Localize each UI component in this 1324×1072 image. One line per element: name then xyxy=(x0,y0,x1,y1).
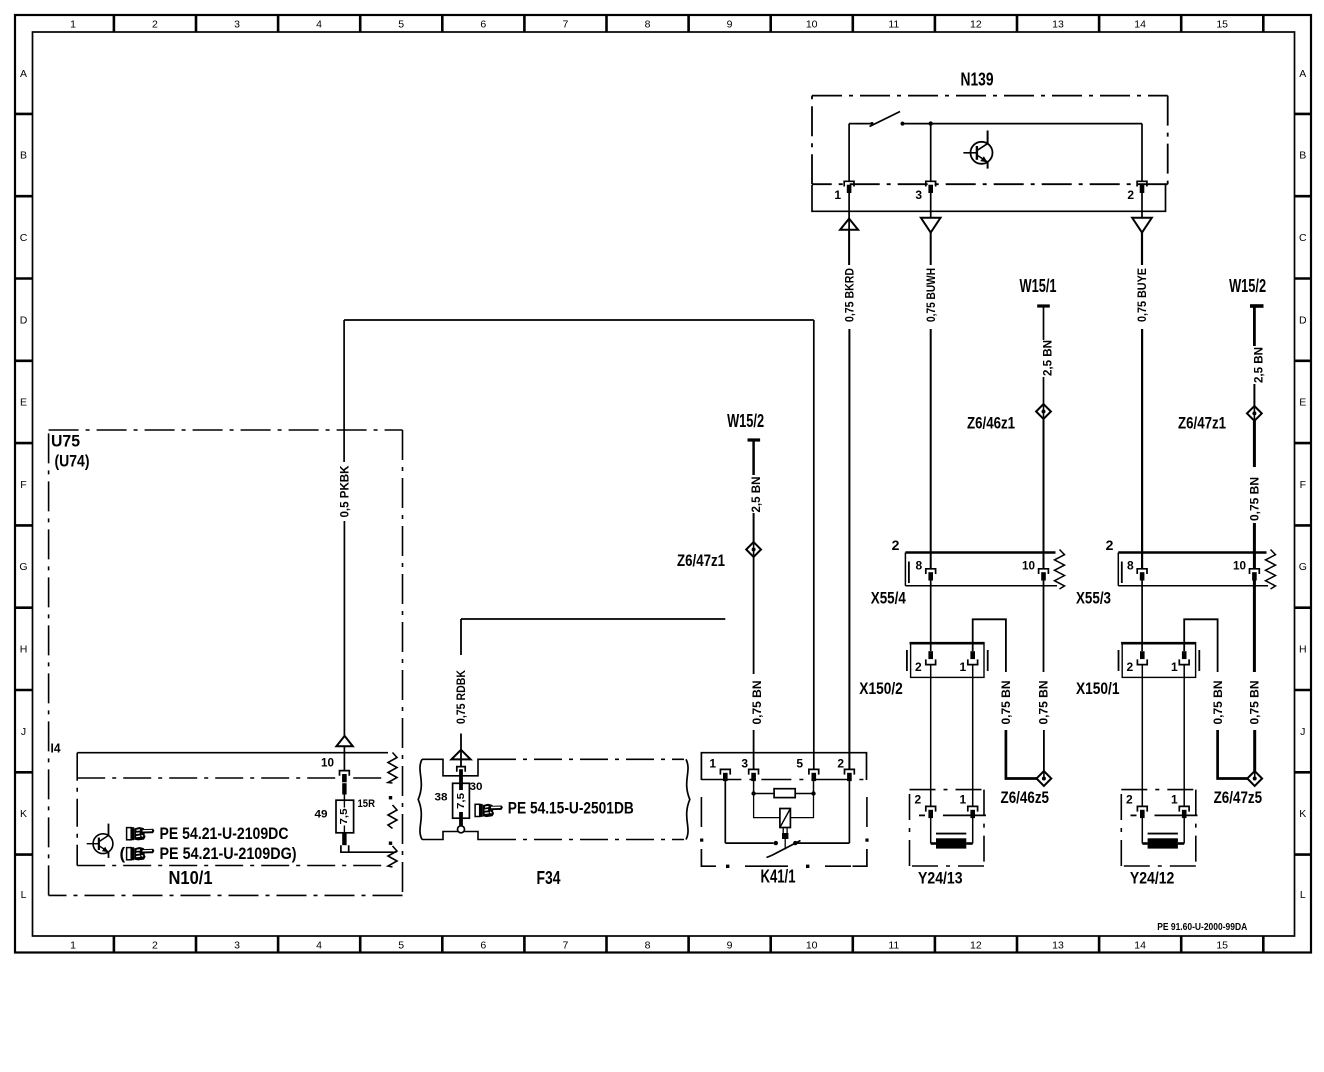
svg-text:W15/1: W15/1 xyxy=(1020,276,1057,296)
svg-text:PE 54.15-U-2501DB: PE 54.15-U-2501DB xyxy=(508,799,634,818)
svg-text:2: 2 xyxy=(1127,660,1134,674)
Y24/13 pin wires to coil xyxy=(930,816,932,843)
svg-text:1: 1 xyxy=(70,940,76,952)
K41/1 actuator link xyxy=(782,828,784,834)
K41/1 wire pin3 to resistor node xyxy=(753,781,755,794)
svg-text:4: 4 xyxy=(316,19,322,31)
terminal W15/1 bar xyxy=(1037,304,1050,307)
svg-text:1: 1 xyxy=(960,793,967,807)
svg-text:PE 91.60-U-2000-99DA: PE 91.60-U-2000-99DA xyxy=(1157,922,1247,933)
connector triangle at F34 xyxy=(451,750,470,760)
svg-text:13: 13 xyxy=(1052,19,1064,31)
svg-text:0,5 PKBK: 0,5 PKBK xyxy=(337,465,351,517)
svg-text:5: 5 xyxy=(398,940,404,952)
N10/1 fuse stub top xyxy=(342,783,346,794)
svg-text:E: E xyxy=(20,397,27,409)
svg-text:X150/1: X150/1 xyxy=(1076,679,1120,698)
K41/1 pin 2 xyxy=(845,769,855,774)
N10/1 pin-row dash-dot line xyxy=(77,777,388,779)
Y24/12 pin 2 xyxy=(1137,806,1147,811)
svg-text:12: 12 xyxy=(970,19,982,31)
terminal W15/2 bar (right) xyxy=(1250,304,1264,308)
K41/1 bottom dash-dot edge xyxy=(726,865,729,868)
wire Z6/46z1 -> X55/4 pin10 xyxy=(1043,419,1045,569)
relay K41/1 top box xyxy=(701,753,866,780)
svg-text:1: 1 xyxy=(1171,793,1178,807)
X55/3 inner bracket xyxy=(1121,562,1123,584)
wire X55/4 pin10 -> label break xyxy=(1043,580,1045,672)
svg-text:2: 2 xyxy=(1106,537,1114,553)
X55/4 pin 10 xyxy=(1039,569,1049,574)
svg-text:U75: U75 xyxy=(51,432,80,451)
svg-text:Y24/12: Y24/12 xyxy=(1130,868,1175,887)
svg-text:8: 8 xyxy=(645,940,651,952)
svg-text:D: D xyxy=(20,314,28,326)
svg-text:1: 1 xyxy=(834,188,841,202)
svg-text:15: 15 xyxy=(1216,940,1228,952)
svg-text:L: L xyxy=(1300,889,1306,901)
Y24/12 solenoid coil xyxy=(1148,833,1178,835)
valve Y24/13 dashed box xyxy=(910,789,985,791)
wire 0,5 PKBK upper xyxy=(343,320,345,462)
svg-text:Z6/47z1: Z6/47z1 xyxy=(677,551,725,570)
svg-text:PE 54.21-U-2109DG): PE 54.21-U-2109DG) xyxy=(160,844,297,863)
svg-text:F: F xyxy=(20,479,26,491)
svg-text:X55/4: X55/4 xyxy=(871,589,906,608)
wire X55/3 pin8 -> X150/1 pin2 xyxy=(1141,580,1143,651)
svg-text:9: 9 xyxy=(727,19,733,31)
X55/4 right break squiggle xyxy=(1055,550,1065,590)
X150/2 pin 2 xyxy=(928,651,933,659)
svg-text:0,75 BN: 0,75 BN xyxy=(750,681,764,725)
K41/1 wire resistor to pin5 node xyxy=(795,793,813,795)
svg-text:Z6/46z5: Z6/46z5 xyxy=(1001,788,1050,807)
wire X55/3 pin10 -> label break (thick) xyxy=(1253,580,1256,672)
svg-text:7: 7 xyxy=(562,940,568,952)
svg-text:15: 15 xyxy=(1216,19,1228,31)
wire W15/1 down xyxy=(1043,306,1045,340)
X150/1 pin 2 xyxy=(1140,651,1145,659)
svg-text:1: 1 xyxy=(1171,660,1178,674)
svg-text:2: 2 xyxy=(152,940,158,952)
svg-text:W15/2: W15/2 xyxy=(1229,276,1266,296)
svg-text:3: 3 xyxy=(234,940,240,952)
wire 0,75 BUYE lower segment to X55/3 pin 8 xyxy=(1141,329,1143,569)
K41/1 right dash-dot edge xyxy=(866,797,868,827)
N139 pin wires through bottom line xyxy=(848,193,850,230)
svg-text:10: 10 xyxy=(806,19,818,31)
wire X150/1 pin1 -> Y24/12 pin1 xyxy=(1183,665,1185,807)
control unit N139 dash-dot box xyxy=(812,95,1168,97)
N139 pin 3 xyxy=(926,181,936,186)
optional equipment box U75 xyxy=(49,429,403,431)
svg-text:2,5 BN: 2,5 BN xyxy=(1251,347,1265,383)
svg-text:N10/1: N10/1 xyxy=(169,868,213,888)
wire -> splice Z6/46z5 xyxy=(1043,730,1045,771)
K41/1 relay coil xyxy=(780,809,791,828)
svg-text:K41/1: K41/1 xyxy=(761,867,796,887)
K41/1 pin row dash-dot line xyxy=(701,779,866,781)
splice Z6/47z1 (middle) xyxy=(746,542,761,557)
N10/1 top solid edge xyxy=(77,752,388,754)
F34 top edge with fuse pocket xyxy=(422,759,488,776)
splice Z6/46z1 xyxy=(1036,404,1051,419)
svg-text:Z6/46z1: Z6/46z1 xyxy=(967,414,1015,433)
svg-text:10: 10 xyxy=(1022,559,1035,573)
wire X150/1 pin2 -> Y24/12 pin2 xyxy=(1141,665,1143,807)
X150/2 side brackets xyxy=(906,650,908,671)
wire to splice Z6/47z1 (middle) xyxy=(753,513,755,542)
wire label -> X55/3 pin10 (thick) xyxy=(1253,523,1256,569)
svg-text:3: 3 xyxy=(915,188,922,202)
K41/1 switch contact left from pin 1 xyxy=(724,781,726,843)
N10/1 bottom dash-dot edge xyxy=(77,865,388,867)
svg-text:D: D xyxy=(1299,314,1307,326)
svg-text:6: 6 xyxy=(480,940,486,952)
N139 internal wire with switch xyxy=(849,123,872,125)
hand pointer (F34 note) xyxy=(475,804,503,817)
bridge wire -> splice Z6/47z5 left vertex xyxy=(1218,730,1248,779)
transistor symbol inside N139 xyxy=(963,131,992,169)
svg-text:10: 10 xyxy=(806,940,818,952)
valve Y24/12 dashed box xyxy=(1121,789,1196,791)
N139 internal verticals to pins xyxy=(848,124,850,182)
svg-text:11: 11 xyxy=(888,940,899,952)
svg-text:G: G xyxy=(19,561,27,573)
X55/4 inner bracket xyxy=(908,562,910,584)
K41/1 coil branch left xyxy=(754,794,780,818)
svg-text:38: 38 xyxy=(435,792,448,804)
wire to splice Z6/46z1 xyxy=(1043,377,1045,404)
wire -> splice Z6/47z5 (thick) xyxy=(1253,730,1256,771)
fuse F34 body xyxy=(453,783,470,818)
K41/1 left dash-dot edge xyxy=(700,797,702,827)
svg-text:0,75 BUWH: 0,75 BUWH xyxy=(924,268,938,322)
svg-text:5: 5 xyxy=(796,757,803,771)
svg-text:Z6/47z1: Z6/47z1 xyxy=(1178,414,1226,433)
wire X55/4 pin8 -> X150/2 pin2 xyxy=(930,580,932,651)
svg-text:1: 1 xyxy=(709,757,716,771)
X150/1 side brackets xyxy=(1118,650,1120,671)
svg-text:14: 14 xyxy=(1134,940,1146,952)
svg-text:15R: 15R xyxy=(358,798,376,810)
N139 junction dot pin3 branch xyxy=(929,121,933,125)
wire bus U75->K41 pin5 top horizontal xyxy=(344,319,814,321)
F34 fuse element stub bottom xyxy=(459,812,463,826)
F34 right brace edge xyxy=(686,759,690,839)
svg-text:8: 8 xyxy=(1127,559,1134,573)
transistor symbol inside N10/1 xyxy=(87,824,113,858)
wire 0,75 BKRD upper segment xyxy=(848,230,850,265)
svg-text:(: ( xyxy=(120,844,126,863)
N10/1 left dash-dot edge xyxy=(76,753,78,866)
svg-text:10: 10 xyxy=(1233,559,1246,573)
svg-text:F34: F34 xyxy=(537,868,561,888)
svg-text:X150/2: X150/2 xyxy=(859,679,903,698)
splice Z6/47z5 xyxy=(1247,771,1262,786)
svg-text:0,75 RDBK: 0,75 RDBK xyxy=(454,670,468,724)
Y24/13 pin 1 xyxy=(968,806,978,811)
wire down to F34, upper seg xyxy=(460,619,462,655)
Y24/13 pin 2 xyxy=(926,806,936,811)
svg-text:4: 4 xyxy=(316,940,322,952)
X150/2 pin 1 xyxy=(970,651,975,659)
terminal W15/2 bar (middle) xyxy=(748,438,761,441)
wire Z6/47z1 -> label break (middle) xyxy=(753,557,755,674)
svg-text:13: 13 xyxy=(1052,940,1064,952)
svg-text:Z6/47z5: Z6/47z5 xyxy=(1214,788,1263,807)
wire F34 -> K41 pin1 horizontal xyxy=(461,618,725,620)
N139 solid bottom U-outline xyxy=(812,185,1166,211)
wire X150/2 pin2 -> Y24/13 pin2 xyxy=(930,665,932,807)
hand pointer note 1 xyxy=(127,827,155,840)
svg-text:0,75 BN: 0,75 BN xyxy=(1037,681,1051,725)
connector triangle pin 2 (plug down) xyxy=(1132,218,1152,233)
svg-text:3: 3 xyxy=(234,19,240,31)
F34 pin cup xyxy=(457,767,465,772)
K41/1 pin 1 xyxy=(720,769,730,774)
X150/1 pin 1 xyxy=(1182,651,1187,659)
svg-text:11: 11 xyxy=(888,19,899,31)
svg-text:H: H xyxy=(20,644,28,656)
svg-text:49: 49 xyxy=(315,809,328,821)
svg-text:9: 9 xyxy=(727,940,733,952)
K41/1 switch blade xyxy=(772,841,801,856)
svg-text:14: 14 xyxy=(1134,19,1146,31)
svg-text:F: F xyxy=(1300,479,1306,491)
F34 bottom terminal circle xyxy=(458,826,465,833)
wire Z6/47z1 -> label (thick) xyxy=(1253,421,1256,467)
hand pointer note 2 xyxy=(127,847,155,860)
svg-text:0,75 BN: 0,75 BN xyxy=(1248,681,1262,725)
K41/1 switch contact right from pin 2 xyxy=(848,781,850,843)
svg-text:3: 3 xyxy=(741,757,748,771)
K41/1 pin 3 xyxy=(749,769,759,774)
connector triangle pin 3 (plug down) xyxy=(921,218,941,233)
N10/1 wire to right edge xyxy=(349,851,397,853)
svg-text:2,5 BN: 2,5 BN xyxy=(1041,340,1055,376)
wire W15/2 down (right) xyxy=(1253,306,1256,346)
Y24/12 pin wires to coil xyxy=(1141,816,1143,843)
frame column/row dividers xyxy=(113,15,116,32)
svg-text:2: 2 xyxy=(915,660,922,674)
wire 0,75 BKRD lower segment to K41/1 pin 2 xyxy=(848,329,850,769)
K41/1 coil branch right xyxy=(790,794,813,818)
K41/1 pin 5 xyxy=(809,769,819,774)
svg-text:1: 1 xyxy=(960,660,967,674)
svg-text:2: 2 xyxy=(152,19,158,31)
connector X150/1 box xyxy=(1122,643,1195,678)
svg-text:K: K xyxy=(20,808,27,820)
svg-text:8: 8 xyxy=(645,19,651,31)
svg-text:0,75 BN: 0,75 BN xyxy=(1248,477,1262,521)
fuse (7,5) in N10/1 xyxy=(336,800,354,833)
svg-text:J: J xyxy=(21,726,26,738)
K41/1 bottom corner brackets xyxy=(701,849,716,866)
svg-text:G: G xyxy=(1299,561,1307,573)
svg-text:0,75 BN: 0,75 BN xyxy=(999,681,1013,725)
svg-text:H: H xyxy=(1299,644,1307,656)
wire 0,75 BUYE upper segment xyxy=(1141,233,1143,265)
wire down to K41/1 pin 5 xyxy=(813,320,815,769)
svg-text:W15/2: W15/2 xyxy=(727,411,764,431)
svg-text:0,75 BKRD: 0,75 BKRD xyxy=(842,268,856,322)
F34 bottom edge with pocket xyxy=(422,832,488,840)
svg-text:12: 12 xyxy=(970,940,982,952)
svg-text:6: 6 xyxy=(480,19,486,31)
connector triangle pin 1 (plug up) xyxy=(840,219,858,230)
splice Z6/46z5 xyxy=(1037,771,1052,786)
svg-text:30: 30 xyxy=(470,781,483,793)
svg-text:B: B xyxy=(20,150,27,162)
connector triangle into N10/1 xyxy=(336,736,352,746)
svg-text:J: J xyxy=(1300,726,1305,738)
Y24/13 internal dash-dot line xyxy=(919,814,925,816)
F34 left brace edge xyxy=(418,759,422,839)
X55/3 pin 8 xyxy=(1137,569,1147,574)
N139 switch blade xyxy=(870,112,901,127)
svg-text:B: B xyxy=(1299,150,1306,162)
wire X150/2 pin1 -> Y24/13 pin1 xyxy=(972,665,974,807)
N139 pin 2 xyxy=(1137,181,1147,186)
svg-text:2,5 BN: 2,5 BN xyxy=(749,477,763,513)
bridge wire X150/2 pin1 up-over xyxy=(973,619,1006,672)
F34 fuse element stub top xyxy=(459,769,463,790)
N10/1 pin 10 xyxy=(340,771,350,776)
svg-text:10: 10 xyxy=(321,758,334,770)
svg-text:K: K xyxy=(1299,808,1306,820)
Y24/13 solenoid coil xyxy=(936,833,966,835)
svg-text:X55/3: X55/3 xyxy=(1076,589,1111,608)
connector X55/4 box xyxy=(905,551,1055,553)
svg-text:2: 2 xyxy=(1126,793,1133,807)
wire 0,5 PKBK lower xyxy=(343,521,345,737)
bridge wire -> splice Z6/46z5 left vertex xyxy=(1006,730,1037,779)
bridge wire X150/1 pin1 up-over xyxy=(1184,619,1217,672)
wire to splice Z6/47z1 (right) xyxy=(1253,384,1255,406)
svg-text:0,75 BUYE: 0,75 BUYE xyxy=(1135,268,1149,322)
svg-text:7,5: 7,5 xyxy=(339,808,350,824)
connector X55/3 box xyxy=(1118,551,1266,553)
svg-text:A: A xyxy=(20,68,27,80)
svg-text:7: 7 xyxy=(562,19,568,31)
X55/3 right break squiggle xyxy=(1266,550,1276,590)
Y24/12 pin 1 xyxy=(1179,806,1189,811)
Y24/12 internal dash-dot line xyxy=(1131,814,1137,816)
svg-text:C: C xyxy=(20,232,28,244)
wire label -> K41/1 pin 3 xyxy=(753,730,755,769)
X55/3 pin 10 xyxy=(1250,569,1260,574)
svg-text:Y24/13: Y24/13 xyxy=(918,868,963,887)
N10/1 right break squiggles xyxy=(388,753,397,784)
N139 pin 1 xyxy=(844,181,854,186)
K41/1 node dots xyxy=(751,791,755,795)
wire W15/2 down (middle) xyxy=(752,440,755,475)
svg-text:2: 2 xyxy=(1127,188,1134,202)
svg-text:C: C xyxy=(1299,232,1307,244)
K41/1 resistor xyxy=(774,789,795,798)
connector X150/2 box xyxy=(911,643,984,678)
svg-text:5: 5 xyxy=(398,19,404,31)
svg-text:0,75 BN: 0,75 BN xyxy=(1211,681,1225,725)
svg-text:I4: I4 xyxy=(51,741,62,756)
svg-text:2: 2 xyxy=(915,793,922,807)
svg-text:1: 1 xyxy=(70,19,76,31)
svg-text:8: 8 xyxy=(916,559,923,573)
splice Z6/47z1 (right) xyxy=(1247,406,1262,421)
svg-text:PE 54.21-U-2109DC: PE 54.21-U-2109DC xyxy=(160,824,289,843)
X55/4 pin 8 xyxy=(926,569,936,574)
wire 0,75 BUWH lower segment to X55/4 pin 8 xyxy=(930,329,932,569)
svg-text:A: A xyxy=(1299,68,1306,80)
svg-text:N139: N139 xyxy=(961,70,994,90)
svg-text:2: 2 xyxy=(837,757,844,771)
wire lower seg into F34 xyxy=(460,734,462,767)
svg-text:L: L xyxy=(21,889,27,901)
N10/1 fuse stub bottom xyxy=(342,833,346,845)
wire 0,75 BUWH upper segment xyxy=(930,233,932,265)
svg-text:2: 2 xyxy=(892,537,900,553)
svg-text:E: E xyxy=(1299,397,1306,409)
svg-text:7,5: 7,5 xyxy=(456,793,467,809)
svg-text:(U74): (U74) xyxy=(55,452,90,471)
N10/1 fuse bottom cup xyxy=(341,845,349,852)
